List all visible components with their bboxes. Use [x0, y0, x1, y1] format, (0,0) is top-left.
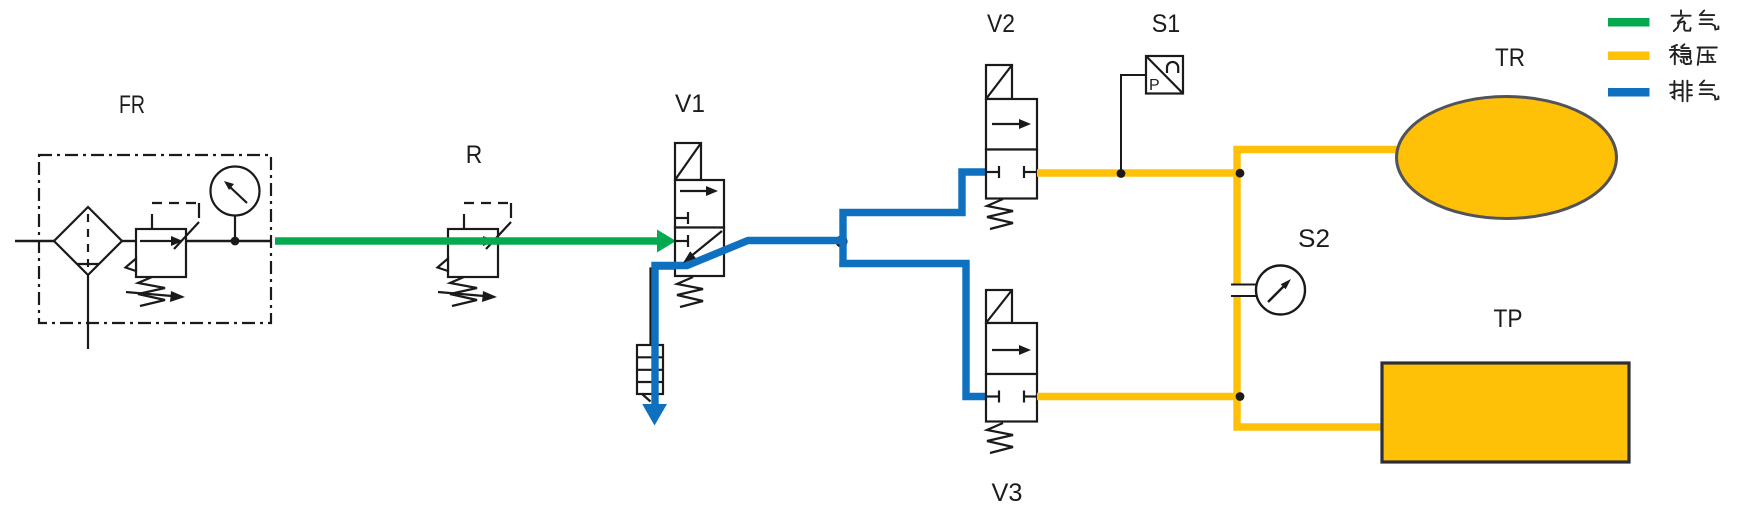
- svg-text:P: P: [1149, 77, 1160, 94]
- valve V2 solenoid: [986, 65, 1012, 99]
- svg-text:TR: TR: [1495, 44, 1525, 72]
- FR regulator: [126, 203, 200, 306]
- svg-text:V3: V3: [992, 479, 1023, 507]
- valve V1 solenoid: [675, 143, 701, 180]
- svg-text:R: R: [466, 141, 483, 169]
- legend text 充气: [1672, 10, 1719, 31]
- wire filter to regulator: [122, 240, 136, 242]
- FR unit enclosure (dash-dot box): [39, 155, 271, 323]
- svg-text:V1: V1: [675, 90, 705, 118]
- valve V2 spring: [987, 199, 1013, 229]
- exhaust wire black under blue: [651, 269, 677, 346]
- stabilise pipe V2 to manifold (yellow): [1037, 169, 1240, 176]
- valve V1 body: [675, 180, 724, 276]
- junction dot V3 branch: [1236, 392, 1245, 401]
- sensor S1 wire: [1121, 75, 1146, 170]
- svg-text:TP: TP: [1494, 305, 1523, 333]
- reservoir TP: [1382, 363, 1629, 462]
- charge pipe (green): [275, 230, 676, 253]
- valve V1 spring: [677, 277, 703, 307]
- junction dot V2 branch: [1236, 169, 1245, 178]
- regulator R: [438, 203, 512, 306]
- sensor S1 (pressure transducer): [1146, 56, 1183, 94]
- reservoir TR: [1397, 97, 1617, 219]
- exhaust pipe (blue) from V1 down: [655, 241, 843, 406]
- valve V3 solenoid: [986, 290, 1012, 323]
- S2 tap gap: [1232, 286, 1256, 296]
- exhaust pipe tee and upper branch to V2 (blue): [843, 172, 987, 267]
- silencer: [637, 345, 663, 402]
- gauge S2: [1256, 266, 1305, 315]
- FR pressure gauge: [211, 167, 260, 242]
- legend text 稳压: [1670, 44, 1717, 65]
- svg-text:S2: S2: [1298, 225, 1330, 253]
- wire regulator to gauge to box edge: [186, 240, 271, 242]
- FR inlet wire: [15, 240, 55, 242]
- gauge S2 stems: [1231, 285, 1256, 297]
- svg-text:FR: FR: [119, 91, 145, 119]
- junction dot S1: [1117, 169, 1126, 178]
- svg-text:S1: S1: [1152, 10, 1181, 38]
- V1 internal arrowhead redrawn over pipe: [683, 251, 696, 263]
- legend swatch exhaust (blue): [1608, 88, 1650, 97]
- junction dot at gauge: [231, 237, 240, 246]
- stabilise pipe V3 to manifold (yellow): [1037, 393, 1240, 400]
- junction dot at exhaust tee (under pipes): [836, 236, 848, 248]
- legend swatch charge (green): [1608, 18, 1650, 27]
- FR filter F: [54, 207, 122, 275]
- exhaust pipe arrowhead: [642, 404, 667, 426]
- valve V2 body: [986, 99, 1037, 199]
- exhaust pipe lower branch to V3 (blue): [843, 262, 987, 397]
- FR filter drain wire: [87, 275, 89, 349]
- legend text 排气: [1670, 81, 1718, 102]
- svg-text:V2: V2: [987, 10, 1015, 38]
- valve V3 body: [986, 323, 1037, 422]
- manifold pipe (yellow) vertical with branches to TR and TP: [1237, 150, 1397, 428]
- valve V3 spring: [987, 423, 1013, 453]
- legend swatch stabilise (yellow): [1608, 52, 1650, 61]
